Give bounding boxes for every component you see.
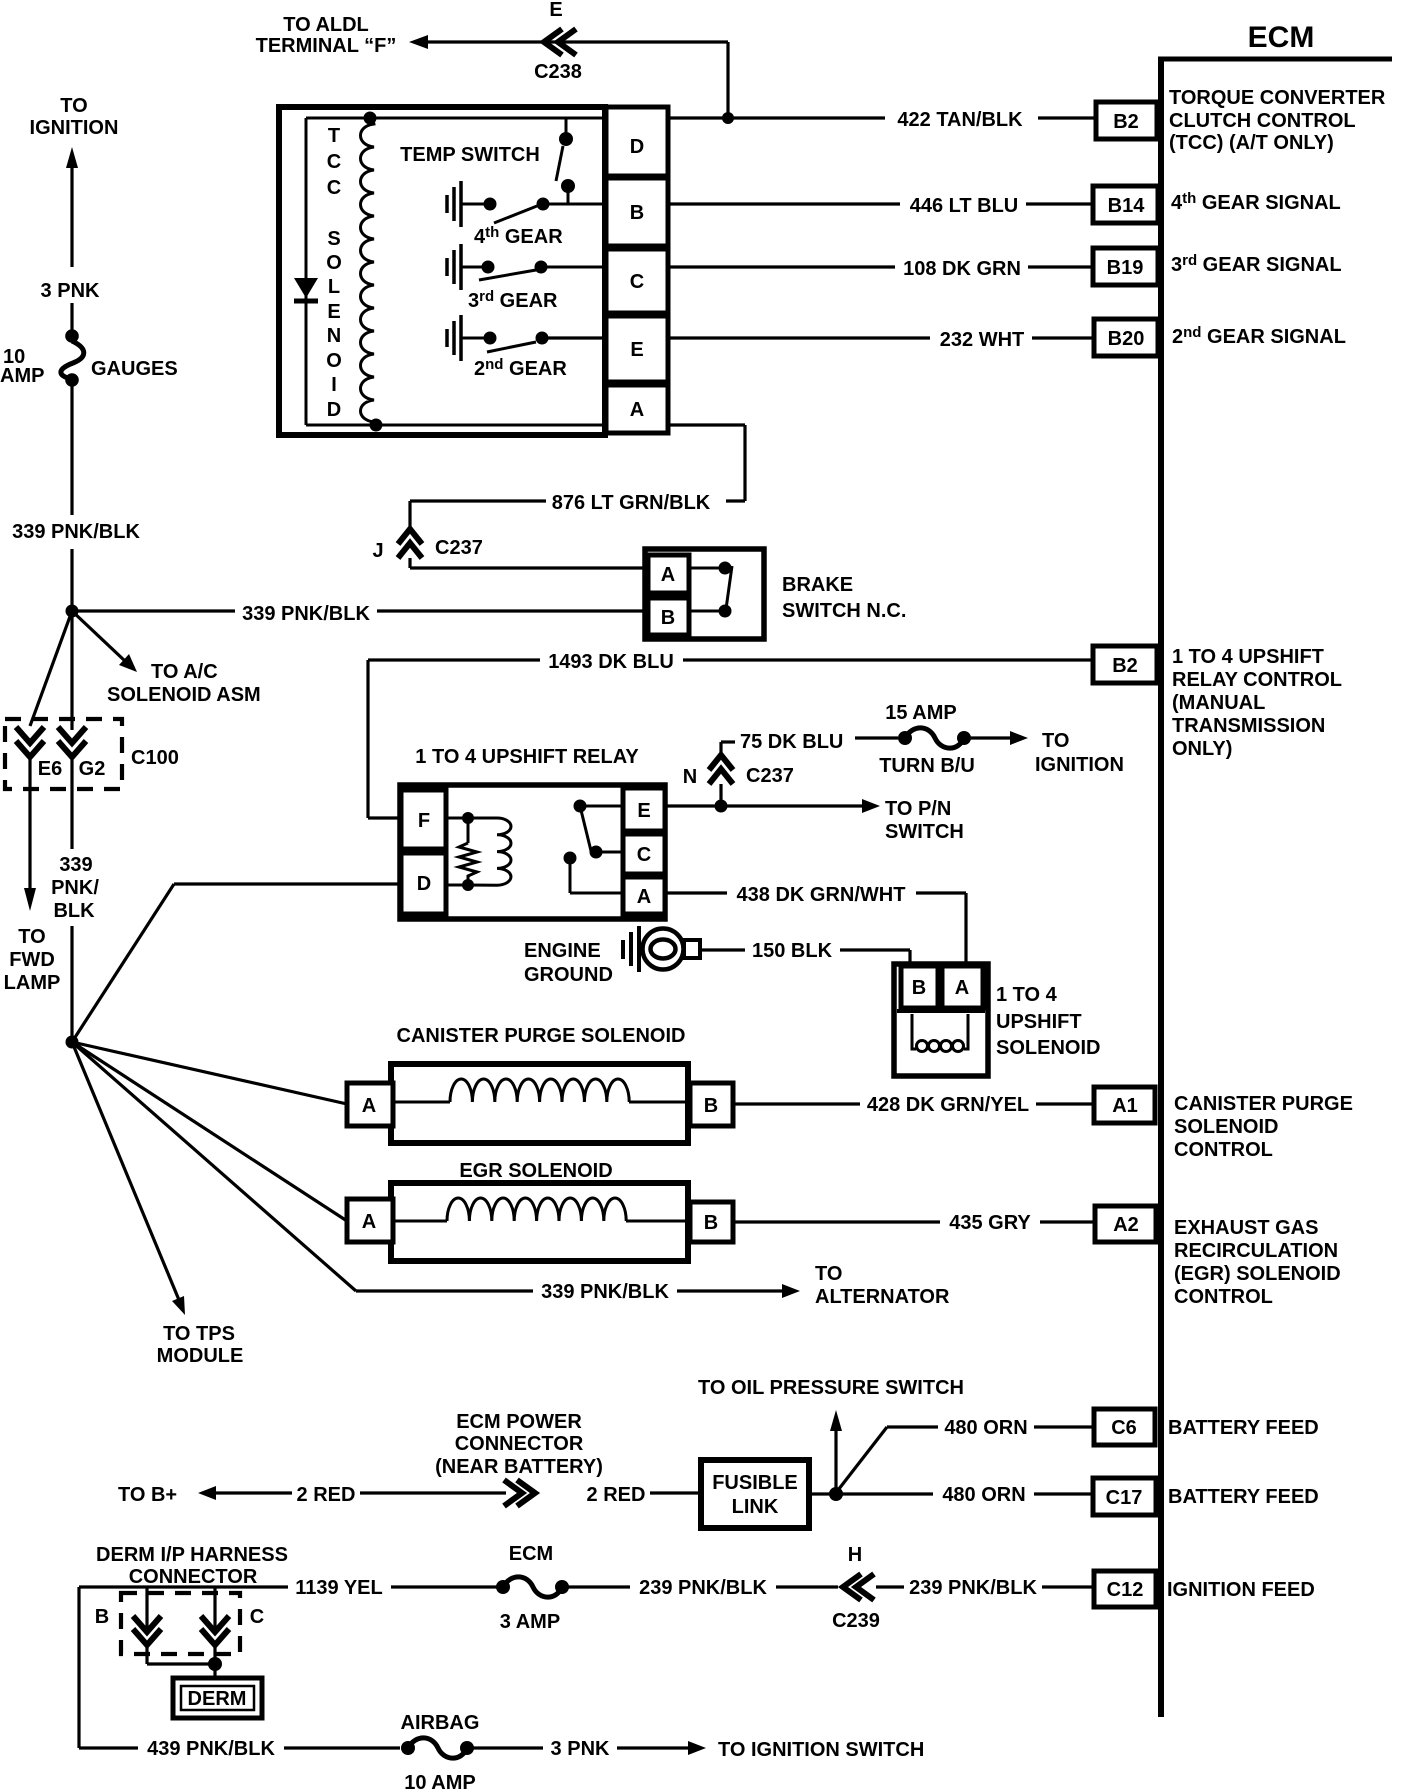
wire 150 BLK: [698, 940, 910, 964]
svg-text:B2: B2: [1112, 655, 1138, 677]
label TO IGNITION (top left): [30, 95, 119, 139]
switch 4th gear: [484, 198, 607, 224]
wire fan to EGR A: [72, 1042, 347, 1221]
wire arrow to B+: [198, 1484, 506, 1506]
svg-text:480 ORN: 480 ORN: [944, 1417, 1027, 1439]
wire 3 PNK arrow to ignition switch: [473, 1738, 706, 1760]
svg-text:E: E: [637, 800, 650, 822]
connector pin A (solenoid): [942, 966, 983, 1008]
svg-text:10 AMP: 10 AMP: [404, 1772, 476, 1792]
wire to ignition arrow up: [66, 147, 78, 267]
svg-text:439 PNK/BLK: 439 PNK/BLK: [147, 1738, 275, 1760]
node coil top: [364, 112, 377, 125]
wire C237 to brake switch A: [410, 558, 647, 568]
wire 876 LT GRN/BLK from TCC pin A: [410, 425, 745, 530]
svg-text:O: O: [326, 252, 342, 274]
relay outer box: [400, 785, 665, 919]
svg-text:ONLY): ONLY): [1172, 738, 1232, 760]
svg-text:TORQUE CONVERTER: TORQUE CONVERTER: [1169, 87, 1386, 109]
wire junction to E6: [30, 611, 72, 726]
connector pin B (canister): [690, 1083, 733, 1126]
connector pin A (relay): [623, 877, 665, 914]
solenoid coil: [912, 1014, 968, 1052]
svg-text:ECM: ECM: [509, 1543, 553, 1565]
wire C chevron to DERM: [213, 1645, 216, 1678]
svg-text:TO: TO: [18, 926, 45, 948]
svg-text:C: C: [327, 151, 341, 173]
svg-text:1 TO 4 UPSHIFT: 1 TO 4 UPSHIFT: [1172, 646, 1324, 668]
wire fan to relay D: [72, 884, 400, 1042]
connector pin E: [606, 316, 668, 382]
connector pin C17: [1093, 1478, 1156, 1515]
svg-text:A: A: [630, 399, 644, 421]
connector pin B2: [1096, 102, 1157, 139]
wire G2 down to fan junction: [70, 757, 73, 1040]
svg-text:ALTERNATOR: ALTERNATOR: [815, 1286, 950, 1308]
switch 3rd gear: [479, 261, 606, 281]
svg-text:CONTROL: CONTROL: [1174, 1286, 1273, 1308]
wire arrow to A/C solenoid asm: [72, 611, 261, 706]
wire to ALDL with arrow: [409, 35, 728, 118]
node battery feed junction: [829, 1487, 843, 1501]
svg-text:A: A: [661, 564, 675, 586]
svg-text:GROUND: GROUND: [524, 964, 613, 986]
connector B chevron (DERM): [95, 1606, 161, 1645]
EGR coil: [391, 1198, 690, 1221]
wire into B chevron: [145, 1587, 148, 1630]
svg-text:DERM: DERM: [188, 1688, 247, 1710]
wire arrow TO P/N SWITCH: [721, 798, 964, 843]
svg-text:B: B: [912, 977, 926, 999]
svg-text:339: 339: [59, 854, 92, 876]
connector pin A2: [1095, 1206, 1156, 1242]
svg-text:RECIRCULATION: RECIRCULATION: [1174, 1240, 1338, 1262]
svg-text:F: F: [418, 810, 430, 832]
svg-text:B: B: [704, 1095, 718, 1117]
svg-text:TEMP SWITCH: TEMP SWITCH: [400, 144, 540, 166]
wire junction to G2: [70, 611, 73, 730]
svg-text:75 DK BLU: 75 DK BLU: [740, 731, 843, 753]
wire 339 PNK/BLK down: [12, 385, 140, 608]
wire arrow to TPS module: [72, 1042, 185, 1315]
svg-text:C237: C237: [746, 765, 794, 787]
svg-text:2 RED: 2 RED: [587, 1484, 646, 1506]
svg-text:B: B: [704, 1212, 718, 1234]
brake switch contacts: [689, 562, 732, 618]
svg-text:BATTERY FEED: BATTERY FEED: [1168, 1417, 1319, 1439]
brake switch outer box: [645, 549, 764, 639]
svg-text:E: E: [549, 0, 562, 21]
svg-text:339 PNK/BLK: 339 PNK/BLK: [541, 1281, 669, 1303]
svg-text:TRANSMISSION: TRANSMISSION: [1172, 715, 1325, 737]
connector pin C6: [1094, 1409, 1155, 1445]
svg-text:T: T: [328, 125, 340, 147]
connector C239 chevron: [832, 1544, 880, 1632]
label EGR solenoid control: [1174, 1217, 1341, 1308]
svg-text:CANISTER PURGE: CANISTER PURGE: [1174, 1093, 1353, 1115]
svg-text:D: D: [417, 873, 431, 895]
connector pin B19: [1093, 248, 1158, 285]
ECM main vertical line: [1158, 57, 1164, 1717]
label TO TPS MODULE: [157, 1323, 244, 1367]
svg-text:TO ALDL: TO ALDL: [283, 14, 369, 36]
svg-text:150 BLK: 150 BLK: [752, 940, 833, 962]
connector pin B20: [1094, 319, 1158, 356]
node DERM junction: [208, 1657, 222, 1671]
svg-text:C: C: [250, 1606, 264, 1628]
svg-text:CANISTER PURGE SOLENOID: CANISTER PURGE SOLENOID: [397, 1025, 686, 1047]
ground 2nd gear: [447, 315, 484, 361]
svg-text:TO B+: TO B+: [118, 1484, 177, 1506]
wire 1493 DK BLU to B2: [368, 651, 1093, 818]
fuse 15 AMP TURN B/U: [879, 702, 975, 777]
label 1 TO 4 UPSHIFT SOLENOID: [996, 984, 1100, 1059]
svg-text:C239: C239: [832, 1610, 880, 1632]
svg-text:L: L: [328, 276, 340, 298]
wire fan to canister purge A: [72, 1042, 347, 1104]
svg-text:TO A/C: TO A/C: [151, 661, 218, 683]
svg-text:IGNITION: IGNITION: [30, 117, 119, 139]
svg-text:15 AMP: 15 AMP: [885, 702, 957, 724]
svg-text:876 LT GRN/BLK: 876 LT GRN/BLK: [552, 492, 711, 514]
1 to 4 upshift solenoid box: [894, 964, 988, 1076]
svg-text:D: D: [630, 136, 644, 158]
relay switch: [564, 800, 624, 894]
svg-text:TERMINAL “F”: TERMINAL “F”: [256, 35, 397, 57]
connector pin A (canister): [347, 1083, 393, 1126]
wire into C chevron: [213, 1587, 216, 1630]
svg-text:SOLENOID: SOLENOID: [996, 1037, 1100, 1059]
connector pin B (EGR): [690, 1202, 733, 1242]
node main junction: [66, 605, 79, 618]
svg-text:232 WHT: 232 WHT: [940, 329, 1024, 351]
ground 4th gear: [447, 181, 484, 227]
label torque converter clutch control: [1169, 87, 1386, 154]
svg-text:A: A: [362, 1095, 376, 1117]
wire 239 PNK/BLK to C239: [568, 1577, 838, 1599]
svg-text:2 RED: 2 RED: [297, 1484, 356, 1506]
ground 3rd gear: [447, 244, 482, 290]
svg-text:C17: C17: [1106, 1487, 1143, 1509]
svg-text:UPSHIFT: UPSHIFT: [996, 1011, 1082, 1033]
svg-text:B: B: [630, 202, 644, 224]
svg-text:435 GRY: 435 GRY: [949, 1212, 1031, 1234]
connector pin B (brake): [648, 598, 689, 635]
svg-text:B20: B20: [1108, 328, 1145, 350]
wire 2 RED to fusible link: [587, 1484, 700, 1506]
EGR solenoid box: [391, 1183, 688, 1261]
svg-text:E6: E6: [38, 758, 62, 780]
wire relay E to junction: [665, 804, 716, 807]
svg-text:J: J: [372, 540, 383, 562]
svg-text:N: N: [683, 766, 697, 788]
svg-text:1 TO 4 UPSHIFT RELAY: 1 TO 4 UPSHIFT RELAY: [415, 746, 639, 768]
label TCC SOLENOID vertical: [326, 125, 342, 421]
connector ECM power chevron: [504, 1480, 535, 1506]
wire 108 DK GRN to B19: [548, 258, 1093, 280]
connector pin B14: [1093, 186, 1158, 223]
svg-text:E: E: [327, 301, 340, 323]
svg-text:SWITCH: SWITCH: [885, 821, 964, 843]
svg-text:AMP: AMP: [0, 365, 44, 387]
svg-text:TURN B/U: TURN B/U: [879, 755, 975, 777]
svg-text:(EGR) SOLENOID: (EGR) SOLENOID: [1174, 1263, 1341, 1285]
connector pin D (relay): [401, 853, 446, 914]
connector G2 chevron: [58, 727, 105, 780]
svg-text:A: A: [637, 886, 651, 908]
svg-text:C100: C100: [131, 747, 179, 769]
fusible link box: [701, 1460, 809, 1528]
svg-text:BATTERY FEED: BATTERY FEED: [1168, 1486, 1319, 1508]
svg-text:A: A: [955, 977, 969, 999]
svg-text:CLUTCH CONTROL: CLUTCH CONTROL: [1169, 110, 1356, 132]
svg-text:A: A: [362, 1211, 376, 1233]
connector pin A (EGR): [347, 1199, 393, 1242]
label DERM I/P HARNESS CONNECTOR: [96, 1544, 288, 1588]
wire 3 PNK: [70, 303, 73, 331]
svg-text:O: O: [326, 350, 342, 372]
fuse GAUGES 10 AMP: [0, 329, 178, 387]
svg-text:C: C: [327, 177, 341, 199]
svg-text:G2: G2: [79, 758, 106, 780]
canister purge coil: [391, 1079, 690, 1102]
svg-text:B2: B2: [1113, 111, 1139, 133]
svg-text:339 PNK/BLK: 339 PNK/BLK: [12, 521, 140, 543]
svg-text:A1: A1: [1112, 1095, 1138, 1117]
wire 75 DK BLU: [721, 731, 898, 755]
node P/N junction: [715, 800, 728, 813]
svg-text:GAUGES: GAUGES: [91, 358, 178, 380]
label TO ALTERNATOR: [815, 1263, 950, 1308]
svg-text:S: S: [327, 228, 340, 250]
svg-text:1493 DK BLU: 1493 DK BLU: [548, 651, 674, 673]
node fan junction: [66, 1036, 79, 1049]
switch 2nd gear: [484, 332, 607, 353]
wire B chevron to DERM junction: [147, 1645, 215, 1664]
label TO ALDL TERMINAL F: [256, 14, 397, 57]
svg-text:480 ORN: 480 ORN: [942, 1484, 1025, 1506]
svg-text:DERM I/P HARNESS: DERM I/P HARNESS: [96, 1544, 288, 1566]
DERM connector dashed box: [121, 1593, 240, 1654]
svg-text:3rd GEAR SIGNAL: 3rd GEAR SIGNAL: [1171, 252, 1342, 276]
svg-text:4th GEAR SIGNAL: 4th GEAR SIGNAL: [1171, 190, 1341, 214]
svg-text:446 LT BLU: 446 LT BLU: [910, 195, 1019, 217]
wire 232 WHT to B20: [548, 329, 1094, 351]
TCC solenoid coil winding: [361, 118, 377, 425]
svg-text:E: E: [630, 339, 643, 361]
connector pin E (relay): [623, 788, 665, 831]
wire arrow to ignition (15A): [969, 730, 1124, 776]
diode: [294, 278, 318, 301]
connector C100 dashed box: [5, 719, 179, 789]
wire 239 PNK/BLK to C12: [876, 1577, 1095, 1599]
svg-text:C12: C12: [1107, 1579, 1144, 1601]
svg-text:TO: TO: [815, 1263, 842, 1285]
connector pin C: [606, 249, 668, 313]
svg-text:TO: TO: [60, 95, 87, 117]
svg-text:CONTROL: CONTROL: [1174, 1139, 1273, 1161]
connector pin A1: [1094, 1087, 1155, 1123]
svg-text:239 PNK/BLK: 239 PNK/BLK: [909, 1577, 1037, 1599]
svg-text:B14: B14: [1108, 195, 1146, 217]
svg-text:239 PNK/BLK: 239 PNK/BLK: [639, 1577, 767, 1599]
label TO FWD LAMP: [4, 926, 61, 994]
svg-text:(NEAR BATTERY): (NEAR BATTERY): [435, 1456, 603, 1478]
fuse ECM 3 AMP: [496, 1577, 569, 1633]
wire 1139 YEL harness: [79, 1577, 497, 1599]
svg-text:A2: A2: [1113, 1214, 1139, 1236]
svg-text:C6: C6: [1111, 1417, 1137, 1439]
wire E6 to FWD lamp arrow: [24, 757, 36, 911]
svg-text:(MANUAL: (MANUAL: [1172, 692, 1265, 714]
connector C237 (N) chevron: [683, 755, 794, 788]
fuse AIRBAG 10 AMP: [401, 1738, 476, 1792]
svg-text:C238: C238: [534, 61, 582, 83]
svg-text:TO OIL PRESSURE SWITCH: TO OIL PRESSURE SWITCH: [698, 1377, 964, 1399]
svg-text:EXHAUST GAS: EXHAUST GAS: [1174, 1217, 1318, 1239]
svg-text:CONNECTOR: CONNECTOR: [129, 1566, 258, 1588]
connector C237 (J) chevron: [372, 529, 482, 562]
svg-text:TO IGNITION SWITCH: TO IGNITION SWITCH: [718, 1739, 924, 1761]
label BRAKE SWITCH N.C.: [782, 574, 906, 622]
svg-text:BLK: BLK: [53, 900, 95, 922]
connector pin A (brake): [648, 555, 689, 593]
svg-text:(TCC) (A/T ONLY): (TCC) (A/T ONLY): [1169, 132, 1334, 154]
solenoid internal divider: [897, 1009, 985, 1013]
svg-text:PNK/: PNK/: [51, 877, 99, 899]
svg-text:B: B: [95, 1606, 109, 1628]
wire 339 PNK/BLK to brake switch: [72, 603, 647, 625]
svg-text:AIRBAG: AIRBAG: [401, 1712, 480, 1734]
wire 438 DK GRN/WHT: [665, 884, 966, 964]
wire 428 DK GRN/YEL to A1: [733, 1094, 1094, 1116]
node junction C238/422: [722, 112, 734, 124]
connector pin F: [401, 790, 446, 849]
svg-text:IGNITION: IGNITION: [1035, 754, 1124, 776]
svg-text:422 TAN/BLK: 422 TAN/BLK: [897, 109, 1023, 131]
svg-text:SOLENOID: SOLENOID: [1174, 1116, 1278, 1138]
label 1 to 4 upshift relay control: [1172, 646, 1342, 760]
canister purge solenoid box: [391, 1064, 688, 1143]
label ENGINE GROUND: [524, 940, 613, 986]
svg-text:FWD: FWD: [9, 949, 55, 971]
svg-text:ECM POWER: ECM POWER: [456, 1411, 582, 1433]
wire 480 ORN to C6: [835, 1417, 1095, 1494]
svg-text:ENGINE: ENGINE: [524, 940, 601, 962]
svg-text:ECM: ECM: [1248, 21, 1315, 54]
svg-text:LAMP: LAMP: [4, 972, 61, 994]
wire fusible link to junction: [809, 1492, 835, 1495]
svg-text:LINK: LINK: [732, 1496, 779, 1518]
wire 439 PNK/BLK: [79, 1587, 400, 1760]
svg-text:CONNECTOR: CONNECTOR: [455, 1433, 584, 1455]
svg-text:1139 YEL: 1139 YEL: [295, 1577, 382, 1599]
TCC inner left wire: [305, 118, 308, 425]
ECM top line: [1158, 57, 1392, 62]
connector pin C (relay): [623, 834, 665, 874]
svg-text:B: B: [661, 607, 675, 629]
svg-text:TO P/N: TO P/N: [885, 798, 951, 820]
relay coil and resistor: [446, 812, 511, 891]
svg-text:1 TO 4: 1 TO 4: [996, 984, 1058, 1006]
connector C238 chevron: [534, 0, 582, 83]
wire fan to alternator: [72, 1042, 800, 1303]
svg-text:H: H: [848, 1544, 862, 1566]
TCC inner top wire: [306, 117, 606, 120]
svg-text:MODULE: MODULE: [157, 1345, 244, 1367]
svg-text:IGNITION FEED: IGNITION FEED: [1167, 1579, 1315, 1601]
connector pin B (solenoid): [901, 966, 938, 1008]
svg-text:RELAY CONTROL: RELAY CONTROL: [1172, 669, 1342, 691]
connector C chevron (DERM): [201, 1606, 264, 1645]
svg-text:C: C: [637, 844, 651, 866]
label 339 PNK/ BLK: [51, 854, 99, 922]
svg-text:108 DK GRN: 108 DK GRN: [903, 258, 1021, 280]
wire 446 LT BLU to B14: [670, 195, 1093, 217]
wire 435 GRY to A2: [733, 1212, 1095, 1234]
label ECM POWER CONNECTOR (NEAR BATTERY): [435, 1411, 603, 1478]
temp switch contacts: [556, 118, 575, 204]
svg-text:SOLENOID ASM: SOLENOID ASM: [107, 684, 261, 706]
svg-text:TO TPS: TO TPS: [163, 1323, 235, 1345]
svg-text:3 PNK: 3 PNK: [41, 280, 100, 302]
svg-text:FUSIBLE: FUSIBLE: [712, 1472, 798, 1494]
TCC inner bottom wire: [306, 424, 606, 427]
connector pin B2 (upshift relay control): [1093, 646, 1157, 683]
TCC solenoid outer box: [279, 107, 605, 435]
wire junction up through C237: [719, 784, 722, 806]
connector pin B: [606, 178, 668, 246]
svg-text:3 AMP: 3 AMP: [500, 1611, 560, 1633]
svg-text:C237: C237: [435, 537, 483, 559]
svg-text:B19: B19: [1107, 257, 1144, 279]
svg-text:3 PNK: 3 PNK: [551, 1738, 610, 1760]
wire 480 ORN to C17: [835, 1484, 1094, 1506]
svg-text:C: C: [630, 271, 644, 293]
node coil bottom: [370, 419, 383, 432]
svg-text:I: I: [331, 374, 337, 396]
connector pin A: [606, 385, 668, 433]
DERM box: [173, 1678, 262, 1718]
svg-text:438 DK GRN/WHT: 438 DK GRN/WHT: [737, 884, 906, 906]
connector pin D: [606, 107, 668, 176]
svg-text:BRAKE: BRAKE: [782, 574, 853, 596]
svg-text:339 PNK/BLK: 339 PNK/BLK: [242, 603, 370, 625]
svg-text:EGR SOLENOID: EGR SOLENOID: [459, 1160, 612, 1182]
wire arrow to oil pressure switch: [830, 1410, 842, 1494]
svg-text:SWITCH N.C.: SWITCH N.C.: [782, 600, 906, 622]
svg-text:N: N: [327, 325, 341, 347]
svg-text:TO: TO: [1042, 730, 1069, 752]
svg-text:D: D: [327, 399, 341, 421]
label canister purge solenoid control: [1174, 1093, 1353, 1161]
svg-text:428 DK GRN/YEL: 428 DK GRN/YEL: [867, 1094, 1029, 1116]
connector E6 chevron: [16, 727, 62, 780]
connector pin C12: [1094, 1571, 1156, 1607]
engine ground symbol: [623, 926, 700, 972]
wire 422 TAN/BLK to B2: [670, 109, 1096, 131]
